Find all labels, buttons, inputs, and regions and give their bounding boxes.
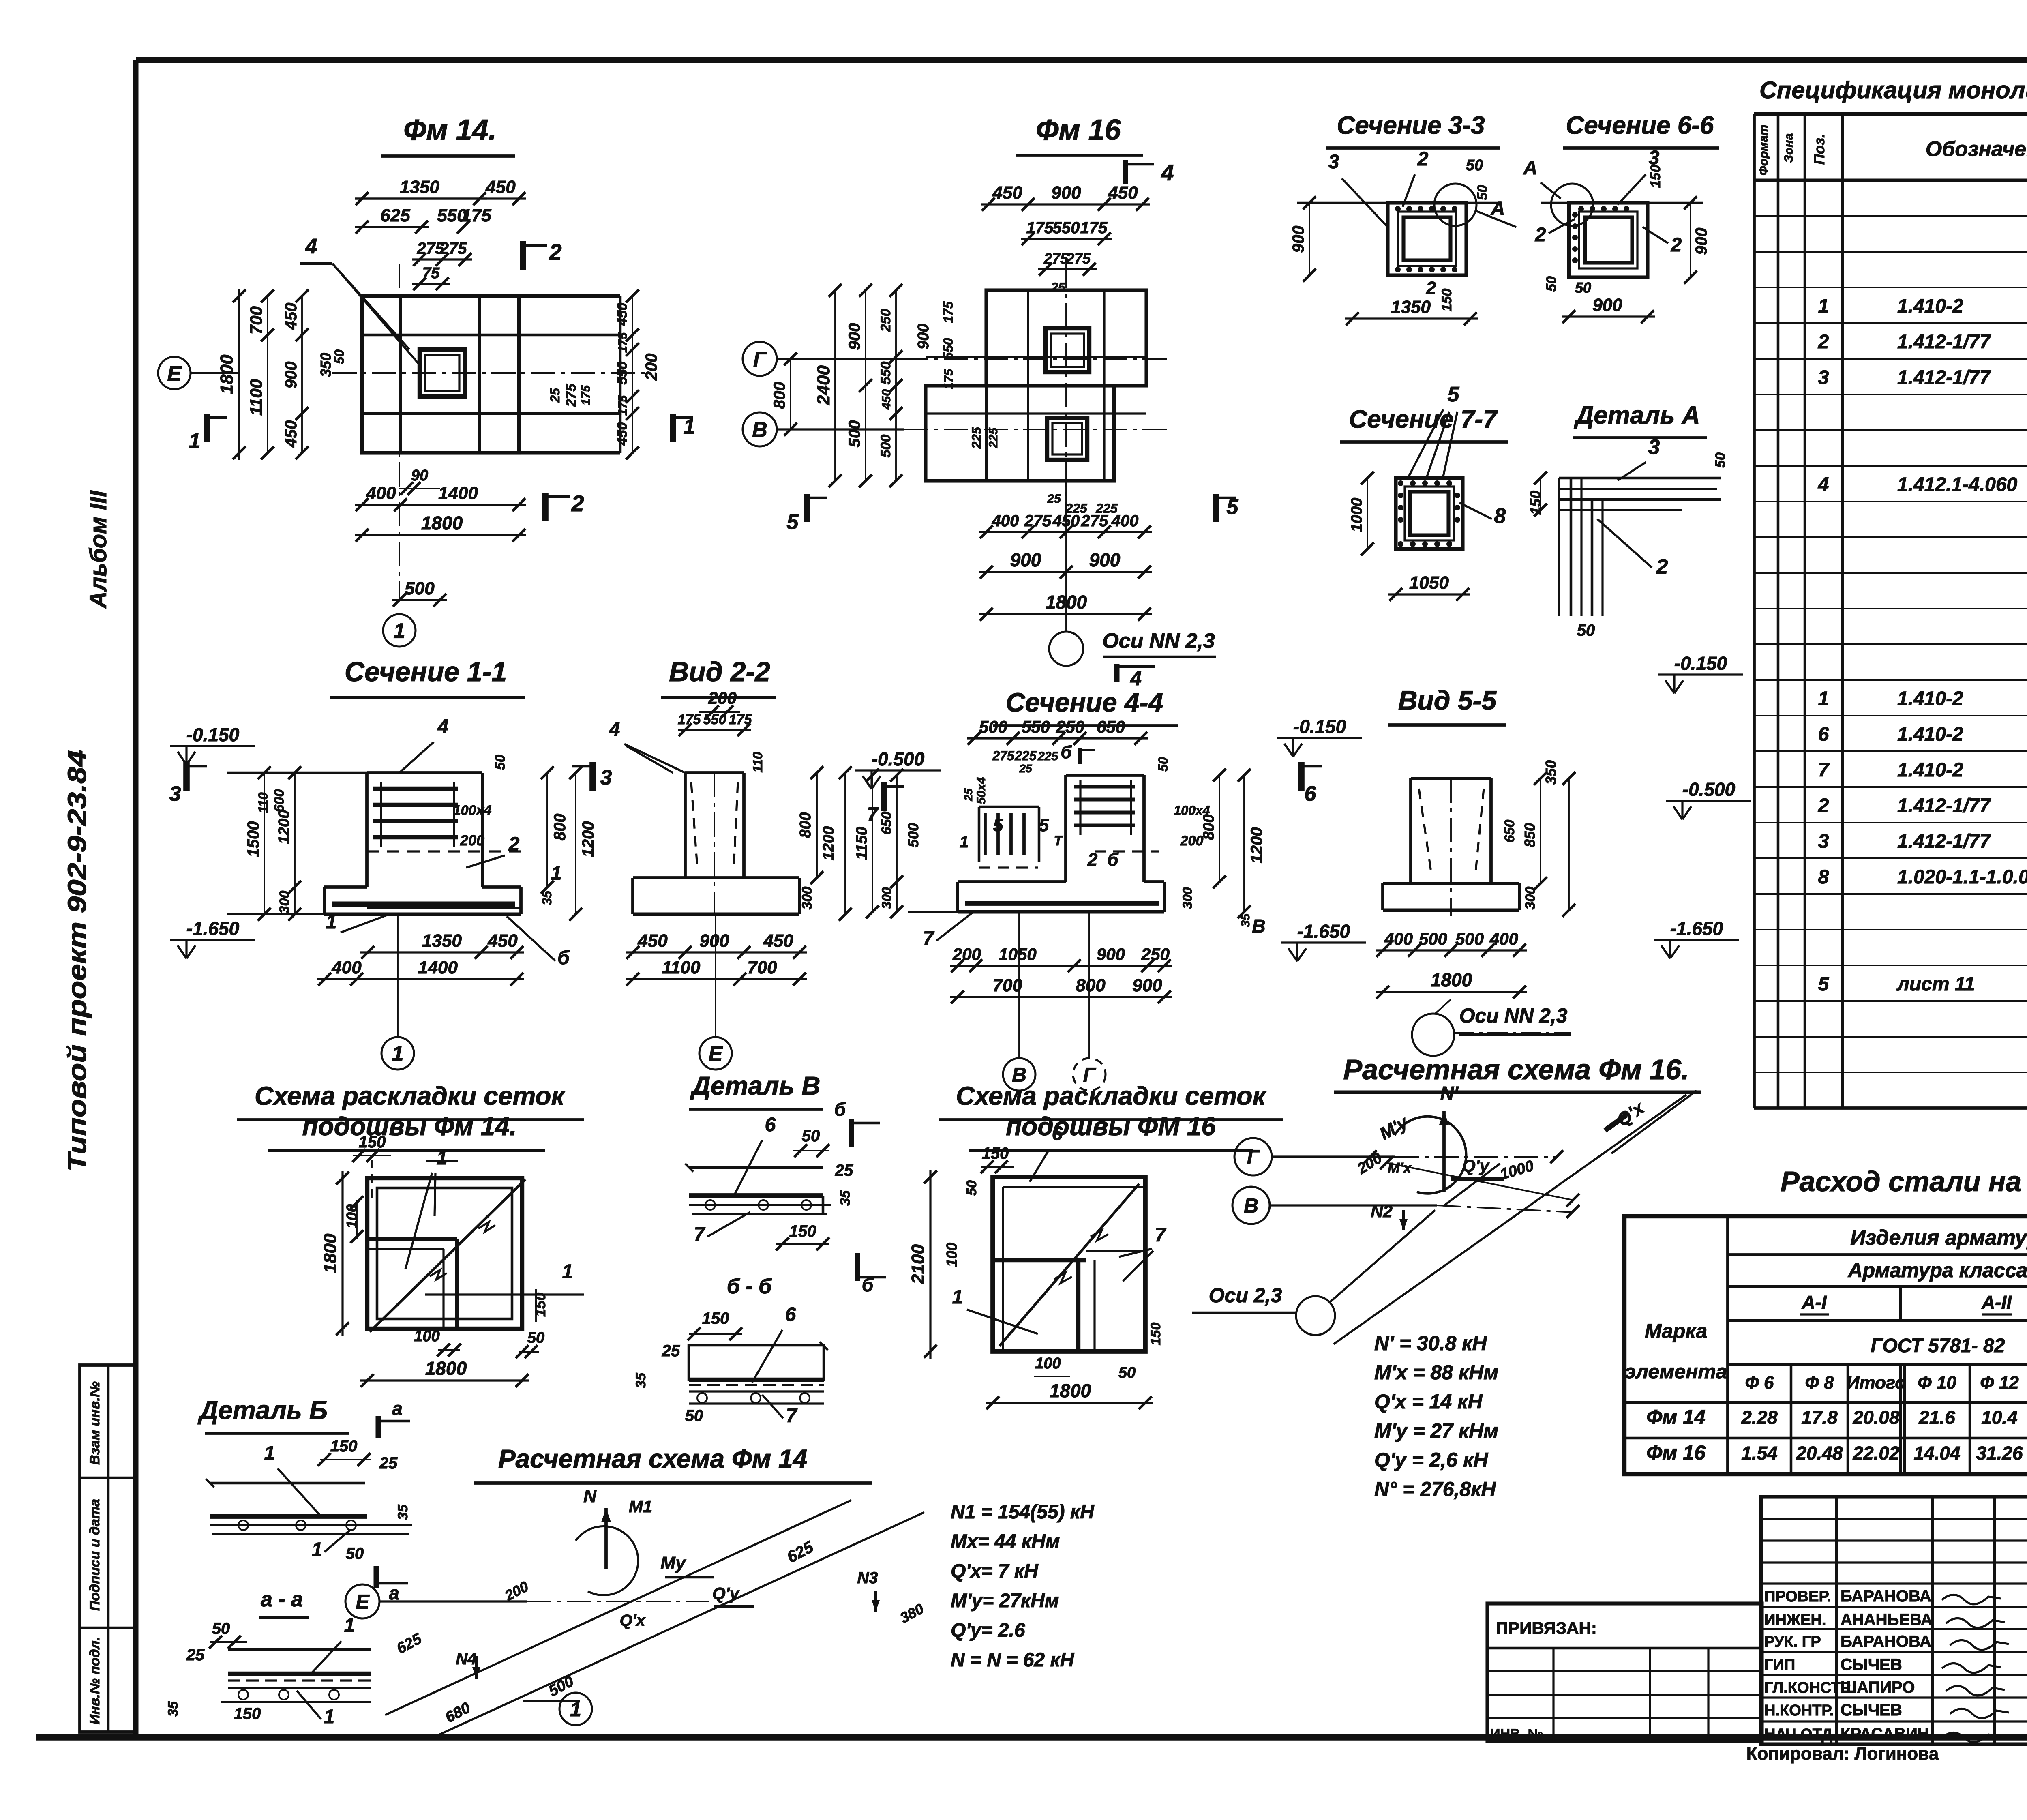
calc scheme FM14 axis circle 1 [559, 1693, 592, 1725]
FM14 plan centerlines [332, 372, 649, 374]
svg-text:10.4: 10.4 [1981, 1407, 2018, 1428]
section 6-6 dims [1690, 203, 1691, 277]
FM14 plan right dims [632, 296, 633, 453]
svg-text:Е: Е [167, 362, 182, 386]
svg-text:Изделия арматурные: Изделия арматурные [1850, 1226, 2027, 1250]
svg-text:-1.650: -1.650 [1670, 918, 1723, 939]
svg-text:450: 450 [615, 422, 630, 446]
svg-text:275: 275 [564, 384, 579, 407]
svg-text:6: 6 [765, 1114, 776, 1136]
svg-text:900: 900 [1097, 945, 1125, 964]
svg-text:100: 100 [943, 1243, 960, 1267]
svg-text:N2: N2 [1371, 1202, 1393, 1221]
svg-text:а - а: а - а [261, 1588, 303, 1611]
svg-text:20.08: 20.08 [1852, 1407, 1900, 1428]
svg-text:Q'х: Q'х [620, 1612, 646, 1629]
svg-text:Схема раскладки сеток: Схема раскладки сеток [255, 1081, 566, 1110]
svg-text:100: 100 [1035, 1355, 1061, 1372]
section 1-1 left dims [264, 773, 265, 914]
svg-text:6: 6 [785, 1304, 796, 1325]
svg-text:а: а [392, 1398, 403, 1419]
FM14 plan axis circle 1 [383, 614, 416, 647]
svg-text:50: 50 [346, 1545, 364, 1563]
svg-text:4: 4 [305, 235, 317, 258]
svg-text:Ф 8: Ф 8 [1805, 1373, 1834, 1393]
svg-text:8: 8 [1818, 866, 1829, 888]
calc scheme FM16 diagonals [1334, 1095, 1686, 1344]
section 1-1 right dims [546, 773, 548, 887]
svg-text:100: 100 [414, 1328, 439, 1345]
svg-text:СЫЧЕВ: СЫЧЕВ [1841, 1701, 1902, 1719]
svg-text:2100: 2100 [908, 1244, 928, 1284]
svg-text:ШАПИРО: ШАПИРО [1841, 1679, 1915, 1696]
svg-text:150: 150 [1439, 289, 1455, 312]
svg-text:50: 50 [964, 1180, 979, 1196]
view 5-5 bottom dims [1376, 949, 1527, 951]
FM16 plan column squares [1046, 328, 1089, 372]
svg-text:7: 7 [786, 1405, 798, 1427]
svg-text:200: 200 [643, 354, 660, 381]
mesh layout FM14 square [367, 1178, 522, 1329]
svg-text:1200: 1200 [1248, 827, 1266, 864]
svg-text:N4: N4 [456, 1650, 476, 1668]
view 5-5 drawing [1411, 777, 1491, 780]
svg-text:500: 500 [878, 435, 894, 458]
svg-text:400: 400 [992, 512, 1019, 530]
svg-text:-0.500: -0.500 [872, 748, 925, 770]
svg-text:75: 75 [422, 265, 440, 282]
svg-text:700: 700 [747, 958, 777, 978]
svg-text:N3: N3 [857, 1569, 878, 1587]
section 3-3 drawing [1297, 202, 1500, 204]
svg-text:М'у = 27 кНм: М'у = 27 кНм [1374, 1419, 1498, 1442]
svg-text:В: В [1252, 915, 1265, 937]
svg-text:225: 225 [1095, 501, 1118, 516]
svg-text:1: 1 [1818, 296, 1829, 317]
svg-text:1800: 1800 [421, 512, 463, 534]
svg-text:ПРОВЕР.: ПРОВЕР. [1764, 1588, 1831, 1605]
section 4-4 top dims [967, 737, 1148, 739]
svg-text:550: 550 [1022, 717, 1050, 736]
svg-text:1.410-2: 1.410-2 [1897, 296, 1963, 317]
svg-text:450: 450 [637, 931, 668, 951]
svg-text:элемента: элемента [1624, 1360, 1727, 1383]
svg-text:200: 200 [1180, 833, 1204, 849]
svg-text:2: 2 [1535, 224, 1546, 246]
specification table grid [1753, 114, 1756, 1108]
svg-text:Q'у= 2.6: Q'у= 2.6 [951, 1620, 1025, 1641]
svg-text:Расчетная схема Фм 16.: Расчетная схема Фм 16. [1343, 1054, 1689, 1085]
section 1-1 drawing [227, 772, 367, 774]
detail V section flags b [849, 1119, 854, 1147]
svg-text:1150: 1150 [853, 827, 870, 860]
svg-text:50: 50 [212, 1620, 230, 1638]
section 1-1 bottom dims [360, 951, 524, 953]
svg-text:175: 175 [729, 712, 752, 727]
detail B section flags a [376, 1416, 381, 1438]
svg-text:900: 900 [1693, 228, 1710, 255]
sheet border frame [136, 57, 2027, 63]
svg-text:Оси 2,3: Оси 2,3 [1209, 1284, 1282, 1307]
svg-text:1500: 1500 [244, 821, 262, 857]
svg-text:275: 275 [992, 748, 1015, 763]
svg-text:300: 300 [1523, 887, 1538, 910]
svg-text:700: 700 [246, 306, 266, 334]
FM14 plan footing outline [362, 296, 519, 453]
svg-text:31.26: 31.26 [1976, 1443, 2023, 1464]
svg-text:650: 650 [1097, 717, 1125, 736]
svg-text:1: 1 [551, 863, 562, 884]
svg-text:450: 450 [880, 389, 893, 410]
svg-text:175: 175 [678, 712, 701, 727]
FM16 plan axis circles [743, 342, 777, 376]
FM16 plan bottom axis circle [1049, 632, 1083, 666]
FM16 plan centerlines [904, 429, 1172, 430]
svg-text:Е: Е [356, 1591, 370, 1613]
svg-text:б: б [862, 1274, 874, 1295]
svg-text:Обозначение: Обозначение [1926, 137, 2027, 161]
svg-text:50: 50 [1575, 279, 1591, 296]
svg-text:35: 35 [1239, 913, 1252, 927]
svg-text:Г: Г [753, 348, 767, 371]
svg-text:25: 25 [379, 1454, 398, 1472]
FM16 plan left dims [834, 290, 836, 481]
svg-text:500: 500 [1419, 929, 1447, 948]
svg-text:6: 6 [1305, 782, 1317, 806]
svg-text:Деталь Б: Деталь Б [197, 1396, 328, 1425]
svg-text:800: 800 [551, 814, 569, 841]
svg-text:1.412-1/77: 1.412-1/77 [1897, 331, 1991, 353]
svg-text:N: N [583, 1486, 597, 1506]
svg-text:2: 2 [1671, 234, 1682, 256]
svg-text:Спецификация монолитных фундам: Спецификация монолитных фундаментов Фм 1… [1759, 77, 2027, 103]
svg-text:1800: 1800 [1431, 969, 1472, 990]
svg-text:1: 1 [562, 1261, 573, 1282]
calc scheme FM14 arrows and labels [604, 1508, 608, 1569]
svg-text:а: а [389, 1582, 399, 1603]
svg-text:7: 7 [1818, 759, 1830, 781]
svg-text:450: 450 [485, 177, 516, 197]
svg-text:Инв.№ подл.: Инв.№ подл. [87, 1637, 103, 1725]
svg-text:7: 7 [1155, 1224, 1167, 1246]
svg-text:Типовой проект 902-9-23.84: Типовой проект 902-9-23.84 [62, 750, 92, 1172]
svg-text:1: 1 [1818, 688, 1829, 710]
svg-text:5: 5 [1448, 383, 1460, 406]
mesh layout FM14 inner cross [367, 1237, 457, 1241]
svg-text:550: 550 [878, 362, 894, 385]
svg-text:150: 150 [1148, 1323, 1163, 1346]
svg-text:22.02: 22.02 [1852, 1443, 1900, 1464]
svg-text:1.410-2: 1.410-2 [1897, 688, 1963, 710]
svg-text:5: 5 [787, 510, 799, 534]
svg-text:1: 1 [264, 1443, 275, 1464]
svg-text:175: 175 [579, 385, 593, 405]
svg-text:1800: 1800 [1050, 1380, 1091, 1401]
svg-text:150: 150 [359, 1133, 386, 1151]
view 5-5 axis circle [1412, 1014, 1454, 1056]
svg-text:400: 400 [366, 483, 396, 503]
svg-text:Фм 14: Фм 14 [1646, 1406, 1706, 1428]
section 4-4 section mark 7 [881, 782, 887, 811]
svg-text:5: 5 [1818, 973, 1830, 995]
svg-text:50: 50 [1577, 622, 1595, 639]
svg-text:Оси NN 2,3: Оси NN 2,3 [1459, 1004, 1568, 1027]
svg-text:Подписи и дата: Подписи и дата [87, 1499, 103, 1611]
svg-text:М1: М1 [629, 1497, 652, 1516]
svg-text:50: 50 [332, 349, 347, 364]
svg-text:225: 225 [1065, 501, 1088, 516]
svg-text:Схема раскладки сеток: Схема раскладки сеток [956, 1081, 1267, 1110]
svg-text:А-II: А-II [1981, 1292, 2012, 1313]
svg-text:N° = 276,8кН: N° = 276,8кН [1374, 1478, 1496, 1501]
svg-text:350: 350 [317, 353, 334, 377]
svg-text:Фм 14.: Фм 14. [403, 114, 497, 146]
svg-text:400: 400 [1384, 929, 1413, 948]
svg-text:17.8: 17.8 [1801, 1407, 1838, 1428]
svg-text:А: А [1491, 198, 1505, 219]
svg-text:900: 900 [282, 362, 300, 389]
svg-text:25: 25 [186, 1646, 205, 1664]
svg-text:5: 5 [993, 815, 1003, 835]
svg-text:500: 500 [405, 579, 435, 598]
FM16 plan section mark 4 top [1123, 160, 1128, 184]
svg-text:НАЧ.ОТД: НАЧ.ОТД [1764, 1726, 1832, 1743]
title block signatures [1942, 1595, 2001, 1604]
svg-text:1.412-1/77: 1.412-1/77 [1897, 795, 1991, 817]
svg-text:900: 900 [846, 323, 864, 350]
svg-text:21.6: 21.6 [1918, 1407, 1955, 1428]
svg-text:А-I: А-I [1801, 1292, 1827, 1313]
svg-text:2: 2 [1417, 148, 1429, 170]
FM16 plan top dims [981, 203, 1150, 205]
osi flag above 4-4 [1114, 664, 1120, 682]
svg-text:450: 450 [615, 303, 630, 326]
svg-text:175: 175 [616, 395, 630, 416]
detail B drawing [210, 1482, 365, 1485]
svg-text:В: В [752, 418, 767, 442]
svg-text:275: 275 [1043, 250, 1069, 267]
svg-text:2: 2 [1818, 795, 1829, 817]
svg-text:50: 50 [1544, 276, 1559, 292]
svg-text:4: 4 [1130, 667, 1142, 690]
view 2-2 right dims [816, 773, 818, 878]
svg-text:-1.650: -1.650 [186, 918, 240, 939]
svg-text:275: 275 [439, 240, 467, 257]
svg-text:КРАСАВИН: КРАСАВИН [1841, 1725, 1929, 1743]
svg-text:1: 1 [312, 1539, 323, 1561]
bottom-left stamp table [80, 1365, 137, 1732]
svg-text:50: 50 [1475, 185, 1490, 200]
svg-text:Q'х= 7 кН: Q'х= 7 кН [951, 1561, 1039, 1582]
svg-text:РУК. ГР: РУК. ГР [1764, 1633, 1821, 1651]
svg-text:N' = 30.8 кН: N' = 30.8 кН [1374, 1332, 1487, 1355]
svg-text:1350: 1350 [400, 177, 439, 197]
svg-text:Q'х = 14 кН: Q'х = 14 кН [1374, 1390, 1483, 1413]
svg-text:-1.650: -1.650 [1297, 921, 1350, 942]
svg-text:БАРАНОВА: БАРАНОВА [1841, 1587, 1931, 1605]
svg-text:1800: 1800 [320, 1233, 340, 1273]
svg-text:Деталь В: Деталь В [690, 1071, 821, 1100]
svg-text:М'у= 27кНм: М'у= 27кНм [951, 1590, 1059, 1612]
svg-text:4: 4 [609, 719, 620, 740]
calc scheme FM16 axes circles [1234, 1138, 1272, 1175]
svg-text:Q'у: Q'у [1462, 1156, 1490, 1176]
svg-text:800: 800 [797, 812, 814, 838]
section 4-4 drawing [1066, 774, 1144, 777]
svg-text:1: 1 [394, 620, 405, 643]
FM14 plan column square [420, 349, 465, 397]
svg-text:1: 1 [326, 911, 337, 933]
svg-text:50: 50 [1466, 157, 1483, 174]
svg-text:1.410-2: 1.410-2 [1897, 759, 1963, 781]
svg-text:50: 50 [1156, 757, 1170, 772]
svg-text:б: б [1061, 742, 1072, 762]
svg-text:550: 550 [615, 362, 630, 385]
section 3-3 dims [1309, 203, 1310, 275]
section 1-1 mesh hatch [373, 787, 458, 791]
svg-text:1100: 1100 [246, 379, 266, 416]
svg-text:Ф 12: Ф 12 [1980, 1373, 2019, 1393]
svg-text:Q'у = 2,6 кН: Q'у = 2,6 кН [1374, 1449, 1488, 1471]
calc scheme FM14 diagonals [385, 1500, 851, 1715]
svg-text:2: 2 [508, 834, 520, 855]
section 4-4 left dims [872, 775, 873, 912]
svg-text:175: 175 [461, 206, 491, 225]
svg-text:1.54: 1.54 [1741, 1443, 1778, 1464]
mesh layout FM16 diagonal [999, 1184, 1139, 1346]
svg-text:Поз.: Поз. [1811, 134, 1828, 165]
svg-text:850: 850 [1521, 823, 1538, 847]
svg-text:ГЛ.КОНСТР: ГЛ.КОНСТР [1764, 1679, 1851, 1696]
svg-text:200: 200 [952, 945, 981, 964]
calc scheme FM14 axes [345, 1584, 379, 1618]
svg-text:-0.500: -0.500 [1682, 779, 1736, 800]
svg-text:-0.150: -0.150 [186, 724, 240, 745]
svg-text:800: 800 [771, 382, 789, 409]
svg-text:Марка: Марка [1645, 1320, 1707, 1342]
svg-text:50: 50 [527, 1329, 544, 1346]
svg-text:110: 110 [750, 752, 765, 772]
svg-text:35: 35 [633, 1372, 649, 1388]
svg-text:800: 800 [1076, 975, 1106, 995]
section 4-4 bottom dims [950, 965, 1172, 967]
svg-text:550: 550 [1053, 219, 1080, 237]
svg-text:175: 175 [616, 332, 630, 353]
svg-text:АНАНЬЕВА: АНАНЬЕВА [1841, 1611, 1933, 1629]
svg-text:450: 450 [282, 420, 300, 448]
svg-text:450: 450 [992, 183, 1022, 203]
view 2-2 axis circle E [699, 1037, 732, 1070]
svg-text:25: 25 [662, 1342, 680, 1360]
svg-text:150: 150 [532, 1293, 549, 1317]
FM16 plan section marks 5 [804, 494, 810, 522]
view 2-2 bottom dims [626, 951, 807, 953]
svg-text:Вид 2-2: Вид 2-2 [669, 656, 770, 687]
svg-text:Деталь А: Деталь А [1573, 401, 1700, 429]
svg-text:Фм 16: Фм 16 [1036, 114, 1121, 146]
svg-text:8: 8 [1494, 504, 1506, 528]
svg-text:100х4: 100х4 [453, 803, 492, 818]
svg-text:25: 25 [548, 388, 562, 403]
svg-text:50: 50 [1118, 1364, 1136, 1381]
section 3-3 detail circle A [1434, 184, 1476, 226]
svg-text:3: 3 [1328, 151, 1339, 173]
section 1-1 section marks 3 [183, 762, 190, 791]
FM16 plan lower footing [926, 386, 1114, 481]
svg-text:550: 550 [941, 338, 956, 360]
svg-text:550: 550 [703, 712, 726, 727]
svg-text:300: 300 [277, 891, 292, 914]
svg-text:1.412-1/77: 1.412-1/77 [1897, 831, 1991, 852]
svg-text:Му: Му [660, 1553, 686, 1573]
svg-text:1200: 1200 [579, 821, 597, 857]
svg-text:400: 400 [331, 958, 362, 978]
svg-text:Т: Т [1054, 833, 1064, 849]
FM16 plan upper footing [986, 290, 1146, 386]
svg-text:подошвы ФМ 16: подошвы ФМ 16 [1006, 1112, 1216, 1141]
svg-text:150: 150 [702, 1310, 729, 1327]
svg-text:50: 50 [685, 1407, 703, 1425]
svg-text:3: 3 [1818, 831, 1829, 852]
svg-text:600: 600 [272, 789, 287, 812]
svg-text:250: 250 [1056, 717, 1084, 736]
svg-text:7: 7 [867, 804, 879, 825]
svg-text:ГИП: ГИП [1764, 1657, 1795, 1674]
svg-text:900: 900 [1089, 549, 1121, 570]
svg-text:275: 275 [1066, 250, 1091, 267]
FM14 plan left dims [238, 289, 240, 460]
svg-text:б: б [1107, 850, 1119, 870]
calc scheme FM16 force arrows [1442, 1111, 1446, 1192]
svg-text:1800: 1800 [217, 354, 237, 394]
svg-text:Взам инв.№: Взам инв.№ [87, 1381, 103, 1465]
svg-text:Сечение 6-6: Сечение 6-6 [1566, 111, 1714, 139]
svg-text:ПРИВЯЗАН:: ПРИВЯЗАН: [1496, 1618, 1597, 1638]
section 7-7 dims [1367, 478, 1368, 549]
svg-text:175: 175 [1026, 219, 1054, 237]
svg-text:450: 450 [487, 931, 518, 951]
svg-text:175: 175 [941, 301, 956, 323]
svg-text:Зона: Зона [1782, 133, 1796, 163]
svg-text:Копировал: Логинова: Копировал: Логинова [1746, 1744, 1939, 1764]
svg-text:625: 625 [380, 206, 410, 225]
steel table grid [1624, 1216, 2027, 1474]
svg-text:-0.150: -0.150 [1293, 716, 1346, 737]
svg-text:2.28: 2.28 [1741, 1407, 1778, 1428]
svg-text:3: 3 [600, 766, 612, 789]
FM16 plan bottom dims [979, 531, 1152, 533]
svg-text:450: 450 [282, 303, 300, 330]
svg-text:225: 225 [1037, 750, 1058, 763]
svg-text:лист 11: лист 11 [1896, 973, 1975, 995]
section 7-7 drawing [1396, 478, 1463, 549]
svg-text:2: 2 [549, 239, 561, 265]
svg-text:25: 25 [1047, 492, 1061, 506]
svg-text:Н.КОНТР.: Н.КОНТР. [1764, 1702, 1834, 1719]
svg-text:450: 450 [1108, 183, 1138, 203]
svg-text:Сечение 3-3: Сечение 3-3 [1337, 111, 1485, 139]
svg-text:Альбом III: Альбом III [85, 490, 111, 609]
FM14 plan axis circle E [158, 357, 191, 389]
svg-text:200: 200 [460, 832, 484, 849]
svg-text:1: 1 [437, 1147, 448, 1169]
svg-text:225: 225 [987, 427, 1000, 448]
svg-text:650: 650 [1502, 820, 1517, 843]
svg-text:250: 250 [1141, 945, 1170, 964]
svg-text:-0.150: -0.150 [1674, 653, 1727, 674]
svg-text:1: 1 [960, 833, 969, 851]
svg-text:4: 4 [1161, 160, 1174, 185]
